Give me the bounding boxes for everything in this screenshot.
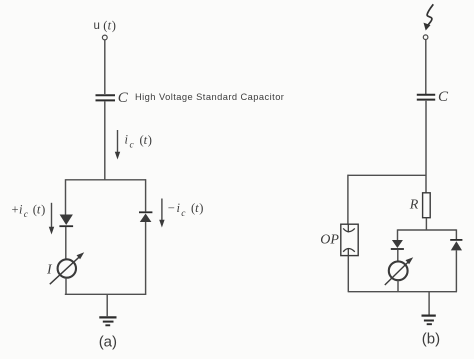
svg-text:−ic(t): −ic(t) (168, 201, 204, 219)
svg-text:C: C (438, 89, 449, 105)
wire: diode pair horizontal (b) (398, 229, 457, 231)
capacitor C2 (417, 95, 435, 100)
wire: right branch (b) (455, 229, 457, 239)
ground (a) (99, 317, 116, 325)
wire (347, 256, 349, 292)
current arrow +i_c (49, 203, 54, 235)
wire (455, 250, 457, 291)
wire: ground tap (b) (428, 292, 430, 315)
wire: top side of loop (a) (66, 179, 147, 181)
svg-text:R: R (409, 198, 419, 213)
current arrow -i_c (159, 199, 164, 228)
wire: bottom side of loop (a) (65, 293, 147, 295)
wire (104, 102, 106, 180)
diode D3 (cathode down) (391, 240, 404, 249)
ground (b) (422, 316, 436, 325)
wire (397, 280, 399, 292)
svg-text:OP: OP (320, 232, 339, 247)
wire (65, 227, 67, 259)
wire: main vertical (b) (425, 101, 427, 193)
terminal (b) (423, 35, 428, 40)
svg-text:u: u (94, 20, 100, 32)
meter I (a) (50, 252, 84, 284)
wire: junction horizontal (b) (348, 174, 427, 176)
diode D1 (left, cathode down) (59, 215, 73, 227)
svg-text:(b): (b) (422, 331, 440, 348)
wire: bottom side (b) (348, 291, 457, 293)
wire (425, 218, 427, 230)
resistor R (423, 193, 431, 218)
capacitor C1 (96, 95, 116, 100)
meter (b) (385, 257, 413, 285)
wire: right branch upper (145, 179, 147, 211)
wire (397, 250, 399, 261)
wire (425, 40, 427, 94)
svg-text:I: I (46, 262, 53, 277)
lightning impulse arrow (424, 4, 434, 30)
wire: left branch upper (65, 179, 67, 214)
wire (65, 278, 67, 295)
svg-text:C: C (118, 90, 129, 106)
diode D2 (right, cathode up) (139, 212, 152, 222)
svg-text:+ic(t): +ic(t) (12, 202, 46, 220)
surge arrester OP (spark gap) (341, 224, 358, 255)
wire (145, 222, 147, 294)
terminal (a) (102, 35, 107, 40)
svg-text:High Voltage Standard Capacito: High Voltage Standard Capacitor (135, 92, 284, 102)
wire: left branch (b) (397, 229, 399, 240)
wire (104, 40, 106, 94)
wire: left vertical to OP (347, 175, 349, 225)
current arrow i_c(t) (115, 130, 120, 160)
svg-text:(a): (a) (99, 334, 117, 351)
svg-text:ic(t): ic(t) (125, 133, 152, 151)
wire: ground tap (a) (106, 294, 108, 316)
svg-text:(t): (t) (103, 19, 116, 33)
diode D4 (cathode up) (450, 240, 462, 251)
